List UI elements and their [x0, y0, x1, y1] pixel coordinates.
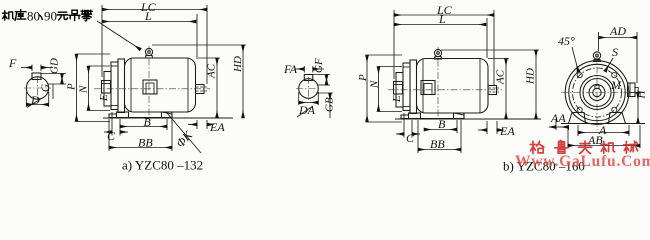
motor a: feet — [109, 112, 172, 118]
motor a: bearing cap — [104, 72, 111, 107]
red watermark url — [515, 153, 650, 170]
motor b: front shaft — [394, 82, 403, 95]
svg-text:B: B — [438, 117, 446, 131]
svg-text:M: M — [610, 78, 622, 92]
front view: eyebolt — [593, 52, 600, 62]
svg-text:L: L — [438, 12, 446, 26]
dimension BB (a) — [109, 119, 172, 151]
svg-text:C: C — [107, 129, 116, 143]
motor b: terminal box — [421, 81, 435, 95]
dimension C (a) — [104, 112, 128, 143]
front view: terminal box — [628, 83, 639, 97]
dimension AC (b) — [488, 59, 509, 120]
svg-text:45°: 45° — [558, 34, 575, 48]
label 45 deg with leader — [558, 34, 579, 72]
ground line (front view) — [561, 123, 645, 125]
dimension B (a) — [120, 115, 167, 130]
motor a: flange — [111, 62, 118, 110]
svg-text:GB: GB — [324, 97, 336, 112]
svg-text:BB: BB — [430, 137, 445, 151]
dimension LC (b) — [394, 3, 494, 85]
dimension D (a detail) — [26, 92, 48, 108]
dimension H — [629, 90, 648, 124]
motor a: vertical center line — [148, 46, 150, 116]
dimension GB (b detail) — [316, 93, 336, 118]
dimension A — [578, 123, 629, 137]
dimension FA (b detail) — [283, 62, 324, 76]
label S with leader — [605, 45, 618, 72]
ground line (a) — [103, 117, 233, 119]
dimension C (b) — [396, 113, 420, 145]
svg-text:AC: AC — [206, 63, 218, 79]
motor b: rear shaft stub — [488, 86, 499, 95]
svg-text:AC: AC — [495, 69, 507, 85]
svg-text:GF: GF — [313, 58, 325, 73]
front view: outer frame circle — [565, 61, 629, 125]
dimension EA (a) — [188, 120, 225, 134]
caption b — [503, 159, 585, 174]
leader arrow from note to eyebolt (a) — [97, 21, 141, 50]
svg-text:S: S — [612, 45, 618, 59]
motor b: body — [417, 59, 489, 114]
svg-text:P: P — [66, 83, 78, 91]
svg-text:AD: AD — [609, 24, 626, 38]
svg-text:L: L — [144, 9, 152, 23]
motor a: terminal box — [143, 80, 157, 94]
svg-text:90: 90 — [44, 9, 57, 24]
svg-text:FA: FA — [283, 62, 298, 76]
dimension DA (b detail) — [297, 92, 318, 117]
motor a: front shaft — [102, 81, 111, 94]
dimension LC (a) — [102, 0, 207, 84]
svg-text:F: F — [8, 56, 17, 70]
front view: feet — [569, 113, 626, 124]
motor b: vertical center line — [437, 47, 439, 117]
motor a: front bracket — [118, 59, 125, 113]
caption a — [122, 158, 203, 173]
dimension P (b) — [357, 55, 402, 122]
dimension N (a) — [78, 66, 111, 111]
ground line (b) — [395, 118, 541, 120]
svg-text:C: C — [406, 131, 415, 145]
svg-text:EA: EA — [209, 120, 225, 134]
dimension AB — [568, 125, 640, 148]
dimension AD — [599, 24, 638, 83]
dimension F (a detail) — [8, 56, 53, 71]
motor b: center line — [388, 89, 502, 91]
svg-text:HD: HD — [525, 68, 537, 85]
dimension L (a) — [102, 9, 197, 57]
note label (chinese) 机座80、90无吊攀 — [2, 9, 92, 24]
motor a: rear shaft stub — [196, 85, 208, 94]
dimension GD (a detail) — [41, 58, 66, 84]
dimension B (b) — [424, 117, 457, 133]
svg-text:HD: HD — [232, 56, 244, 73]
dimension AA — [549, 111, 569, 130]
dimension N (b) — [369, 67, 403, 112]
svg-text:80: 80 — [27, 9, 40, 24]
motor b: feet — [401, 113, 464, 119]
svg-text:GD: GD — [49, 58, 61, 74]
svg-text:AA: AA — [550, 111, 566, 125]
svg-text:a) YZC80 –132: a) YZC80 –132 — [122, 158, 203, 173]
red watermark chinese 格鲁夫机械 — [530, 140, 637, 153]
dimension L (b) — [394, 12, 487, 58]
dimension G (a detail) — [40, 84, 54, 99]
label phi-K (a) with leader — [167, 113, 201, 153]
svg-text:E: E — [391, 95, 403, 103]
dimension EA (b) — [478, 121, 515, 138]
svg-text:N: N — [78, 85, 90, 94]
label E (a) — [98, 94, 110, 102]
svg-text:EA: EA — [499, 124, 515, 138]
svg-text:P: P — [357, 74, 369, 82]
dimension HD (b) — [441, 50, 539, 119]
motor b: eyebolt — [434, 49, 441, 59]
motor a: body — [125, 58, 196, 112]
motor a: eyebolt — [145, 48, 152, 58]
dimension GF (b detail) — [313, 58, 330, 85]
motor b: front bracket — [410, 60, 417, 114]
motor b: flange — [403, 63, 410, 111]
dimension HD (a) — [152, 45, 246, 118]
shaft detail view (a): D circle — [24, 73, 51, 101]
front view: flange lugs with bolt holes — [577, 73, 617, 113]
svg-text:N: N — [369, 80, 381, 89]
svg-text:G: G — [40, 84, 52, 92]
motor b: bearing cap — [396, 73, 403, 108]
svg-text:B: B — [144, 115, 152, 129]
svg-text:BB: BB — [138, 136, 153, 150]
svg-text:H: H — [636, 90, 648, 100]
dimension AC (a) — [196, 58, 220, 118]
svg-text:Www.GaLufu.Com: Www.GaLufu.Com — [515, 153, 650, 170]
motor a: center line — [94, 88, 210, 90]
dimension P (a) — [66, 54, 111, 122]
shaft detail view (b): DA circle — [296, 75, 321, 101]
label E (b) — [391, 95, 403, 103]
dimension BB (b) — [418, 120, 461, 153]
front view: crosshair center lines — [561, 54, 641, 130]
label M — [610, 78, 622, 92]
